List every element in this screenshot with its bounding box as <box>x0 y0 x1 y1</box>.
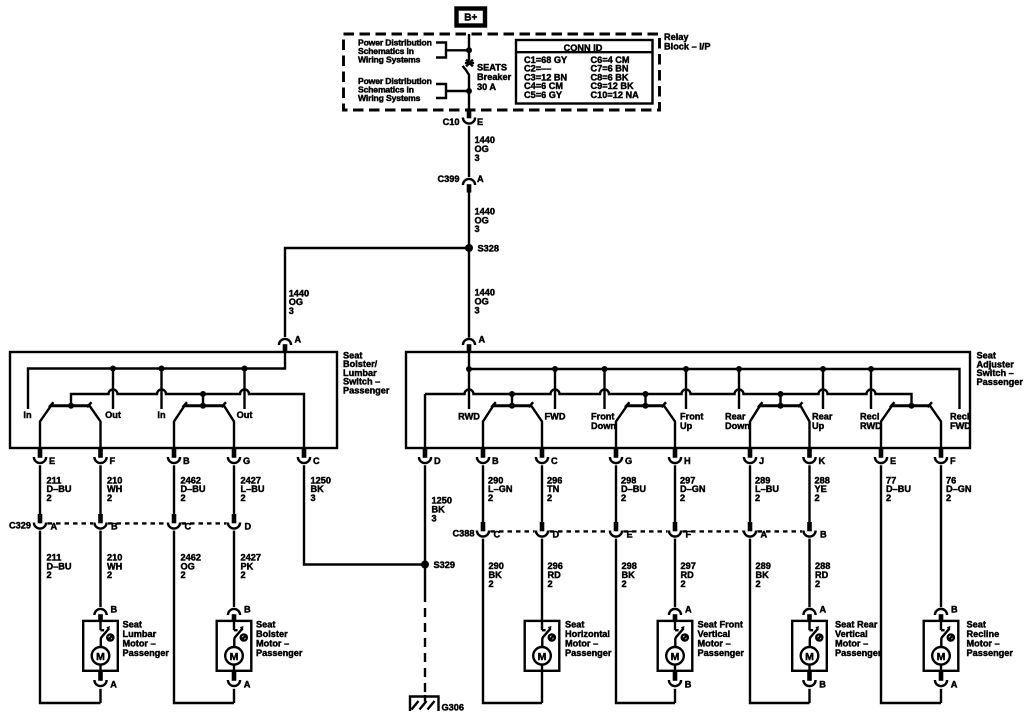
switch blade to pin B <box>174 406 185 448</box>
svg-text:M: M <box>937 651 946 663</box>
wire <box>233 465 235 514</box>
junction <box>68 403 74 409</box>
wire switch common (rear vertical) <box>779 394 781 406</box>
wire switch common (horizontal) <box>511 394 513 406</box>
junction <box>466 88 472 94</box>
connector pin B (lumbar motor) <box>98 614 103 621</box>
connector pin A (front vertical motor) <box>673 614 678 621</box>
svg-text:C: C <box>313 456 320 466</box>
connector C10 pin E <box>467 110 472 118</box>
wire feed bus in left switch <box>28 352 285 409</box>
connector pin A (adjuster switch feed) <box>467 344 472 352</box>
wire common bus with crossover hops (adjuster) <box>425 390 912 449</box>
svg-text:A: A <box>951 679 958 689</box>
connector pin E (adjuster switch) <box>879 448 884 458</box>
junction <box>509 403 515 409</box>
wire C388-B to rear vertical motor <box>808 539 810 607</box>
wire <box>808 465 810 522</box>
svg-text:Seat Front: Seat Front <box>698 620 743 630</box>
svg-text:3: 3 <box>475 305 480 315</box>
wire stub FWD <box>554 369 556 409</box>
svg-text:A: A <box>110 679 117 689</box>
switch blade to pin <box>664 406 675 448</box>
dashed connector line C329 <box>48 522 227 524</box>
svg-text:A: A <box>244 679 251 689</box>
svg-text:B+: B+ <box>464 12 477 23</box>
relay block I/P dashed enclosure <box>344 34 660 110</box>
connector pin B (adjuster switch) <box>481 448 486 458</box>
svg-text:D: D <box>245 522 252 532</box>
svg-text:F: F <box>950 456 956 466</box>
wire bracket to feed <box>446 90 469 92</box>
svg-text:Bolster: Bolster <box>256 629 288 639</box>
svg-text:2: 2 <box>488 493 493 503</box>
junction <box>110 366 116 372</box>
bracket lower reference <box>436 84 446 98</box>
junction <box>643 403 649 409</box>
wire C388-E return loop <box>616 539 675 703</box>
wire 1250 BK to S329 <box>304 465 422 564</box>
svg-text:A: A <box>477 174 484 184</box>
switch blade to pin <box>531 406 542 448</box>
wire horizontal motor to return <box>541 671 543 703</box>
svg-text:A: A <box>295 335 302 345</box>
junction <box>778 403 784 409</box>
switch contact bar (front vertical) <box>627 404 664 407</box>
svg-text:Seat: Seat <box>967 620 986 630</box>
connector C388 pin F <box>673 522 678 531</box>
junction <box>602 366 608 372</box>
connector pin F (adjuster switch) <box>939 448 944 458</box>
svg-text:C10: C10 <box>443 117 460 127</box>
wire <box>940 689 942 703</box>
junction <box>643 391 649 397</box>
connector pin A (bolster motor) <box>232 671 237 681</box>
connector C388 pin B <box>807 522 812 531</box>
svg-text:Front: Front <box>680 411 703 421</box>
svg-text:Rear: Rear <box>812 411 833 421</box>
svg-text:2: 2 <box>886 493 891 503</box>
wire C329-A return loop <box>40 531 101 703</box>
svg-text:Passenger: Passenger <box>967 648 1014 658</box>
connector pin B (recline motor) <box>939 614 944 621</box>
svg-text:B: B <box>820 530 827 540</box>
wire feed into adjuster switch <box>468 352 470 409</box>
svg-text:Seat: Seat <box>565 620 584 630</box>
svg-text:In: In <box>23 410 32 420</box>
junction <box>200 391 206 397</box>
switch contact bar (bolster) <box>185 404 225 407</box>
connector C329 pin B <box>98 514 103 523</box>
connector pin C (adjuster switch) <box>540 448 545 458</box>
svg-text:2: 2 <box>621 493 626 503</box>
svg-text:2: 2 <box>241 493 246 503</box>
connector C388 pin D <box>540 522 545 531</box>
motor M3: Seat Horizontal Motor - Passenger <box>525 621 560 671</box>
svg-text:G: G <box>243 456 250 466</box>
switch assembly box: Seat Adjuster Switch - Passenger <box>406 352 970 448</box>
wire C388-D to horizontal motor <box>541 539 543 621</box>
connector pin A (left switch feed) <box>283 344 288 352</box>
switch contact bar (horizontal) <box>493 404 531 407</box>
svg-text:Motor –: Motor – <box>835 639 868 649</box>
circuit breaker blade <box>463 66 469 75</box>
svg-text:3: 3 <box>475 153 480 163</box>
svg-text:2: 2 <box>756 579 761 589</box>
svg-text:Motor –: Motor – <box>123 639 156 649</box>
wire stub Front Down <box>603 369 605 409</box>
svg-text:E: E <box>890 456 896 466</box>
wire <box>173 465 175 514</box>
connector C329 pin C <box>172 514 177 523</box>
svg-text:S328: S328 <box>478 244 499 254</box>
svg-text:2: 2 <box>107 570 112 580</box>
svg-text:2: 2 <box>181 570 186 580</box>
svg-text:M: M <box>671 651 680 663</box>
svg-text:K: K <box>819 456 826 466</box>
junction <box>868 366 874 372</box>
svg-text:Wiring Systems: Wiring Systems <box>358 55 421 65</box>
svg-text:C388: C388 <box>453 529 475 539</box>
svg-text:Out: Out <box>237 410 253 420</box>
svg-text:Breaker: Breaker <box>477 72 512 82</box>
svg-text:2: 2 <box>680 493 685 503</box>
switch blade to pin <box>881 406 892 448</box>
svg-text:3: 3 <box>311 493 316 503</box>
svg-text:CONN ID: CONN ID <box>564 43 603 53</box>
switch blade to pin G <box>224 406 234 448</box>
connector C388 pin C <box>481 522 486 531</box>
switch blade to pin F <box>90 406 101 448</box>
svg-text:2: 2 <box>547 493 552 503</box>
svg-text:Recl: Recl <box>860 411 879 421</box>
switch blade to pin <box>616 406 627 448</box>
svg-text:2: 2 <box>815 493 820 503</box>
wire stub Recl RWD <box>870 369 872 409</box>
svg-text:C399: C399 <box>438 174 460 184</box>
junction <box>200 403 206 409</box>
wire <box>808 689 810 703</box>
svg-text:M: M <box>538 651 547 663</box>
svg-text:Passenger: Passenger <box>977 377 1024 387</box>
wire <box>749 465 751 522</box>
wire <box>99 689 101 703</box>
svg-text:Horizontal: Horizontal <box>565 629 610 639</box>
wire feed bus (adjuster) <box>469 369 960 409</box>
svg-text:Recl: Recl <box>950 411 969 421</box>
svg-text:G: G <box>625 456 632 466</box>
svg-text:Wiring Systems: Wiring Systems <box>358 93 421 103</box>
connector C388 pin A <box>748 522 753 531</box>
svg-text:Passenger: Passenger <box>565 648 612 658</box>
svg-text:Block – I/P: Block – I/P <box>664 41 710 51</box>
wire common bus with crossover hops to pin C <box>71 390 304 449</box>
dashed connector line C388 <box>491 530 803 532</box>
wire stub Front Up <box>685 369 687 409</box>
wire <box>482 465 484 522</box>
wire stub Out <box>243 369 245 410</box>
connector C329 pin D <box>232 514 237 523</box>
svg-text:Motor –: Motor – <box>256 639 289 649</box>
wire stub Out <box>112 369 114 410</box>
connector pin A (lumbar motor) <box>98 671 103 681</box>
circuit breaker SEATS Breaker 30 A contact star <box>465 60 474 67</box>
svg-text:B: B <box>819 679 826 689</box>
wire C329-D to bolster motor <box>233 531 235 607</box>
svg-text:M: M <box>805 651 814 663</box>
svg-text:2: 2 <box>548 579 553 589</box>
svg-text:S329: S329 <box>434 560 455 570</box>
bracket upper reference <box>436 43 446 58</box>
connector C329 pin A <box>38 514 43 523</box>
svg-text:G306: G306 <box>442 703 464 713</box>
svg-text:F: F <box>110 456 116 466</box>
connector pin F (left switch) <box>98 448 103 458</box>
wire C388-C return loop <box>483 539 542 703</box>
svg-text:C329: C329 <box>9 520 31 530</box>
svg-text:3: 3 <box>432 513 437 523</box>
svg-text:B: B <box>685 679 692 689</box>
wire S328 branch to left switch <box>285 248 469 337</box>
svg-text:Seat Rear: Seat Rear <box>835 620 878 630</box>
connector pin B (front vertical motor) <box>673 671 678 681</box>
switch blade to pin <box>750 406 760 448</box>
svg-text:Front: Front <box>591 411 614 421</box>
svg-text:In: In <box>157 410 166 420</box>
CONN ID table <box>516 40 653 104</box>
svg-text:Motor –: Motor – <box>565 639 598 649</box>
svg-text:2: 2 <box>815 579 820 589</box>
svg-text:Passenger: Passenger <box>256 648 303 658</box>
wire breaker to C10 <box>468 74 470 110</box>
wire pin D to S329 <box>424 465 426 564</box>
svg-text:Recline: Recline <box>967 629 1000 639</box>
switch assembly box: Seat Bolster/Lumbar Switch - Passenger <box>10 352 337 448</box>
svg-text:B: B <box>951 605 958 615</box>
wire <box>674 689 676 703</box>
switch blade to pin <box>930 406 941 448</box>
wire switch common (front vertical) <box>644 394 646 406</box>
wire C388-F to front vertical motor <box>674 539 676 607</box>
svg-text:Passenger: Passenger <box>698 648 745 658</box>
wire pin E to recline return <box>881 465 941 703</box>
wire <box>541 465 543 522</box>
wire <box>99 465 101 514</box>
connector pin B (bolster motor) <box>232 614 237 621</box>
wire S329 to G306 (unconnected path dashed) <box>424 568 426 602</box>
svg-text:2: 2 <box>47 570 52 580</box>
junction <box>778 391 784 397</box>
svg-text:2: 2 <box>622 579 627 589</box>
junction <box>509 391 515 397</box>
svg-text:Lumbar: Lumbar <box>123 629 157 639</box>
svg-text:B: B <box>183 456 190 466</box>
wire pin F to recline motor <box>940 465 942 607</box>
svg-text:Passenger: Passenger <box>123 648 170 658</box>
junction <box>552 366 558 372</box>
svg-text:C10=12 NA: C10=12 NA <box>591 90 640 100</box>
connector pin A (rear vertical motor) <box>807 614 812 621</box>
svg-text:SEATS: SEATS <box>477 62 507 72</box>
svg-text:RWD: RWD <box>458 412 480 422</box>
svg-text:3: 3 <box>289 306 294 316</box>
svg-text:A: A <box>479 335 486 345</box>
battery feed B+ <box>457 9 486 26</box>
wire <box>615 465 617 522</box>
svg-text:E: E <box>477 117 483 127</box>
wire C388-A return loop <box>750 539 810 703</box>
svg-text:FWD: FWD <box>950 421 971 431</box>
switch blade to pin <box>483 406 493 448</box>
wire C329-B to lumbar motor <box>99 531 101 607</box>
svg-text:A: A <box>685 605 692 615</box>
connector pin B (left switch) <box>172 448 177 458</box>
connector pin K (adjuster switch) <box>807 448 812 458</box>
connector pin H (adjuster switch) <box>673 448 678 458</box>
connector pin A (recline motor) <box>939 671 944 681</box>
motor M6: Seat Recline Motor - Passenger <box>924 621 959 671</box>
wire relay block top to breaker <box>468 34 470 61</box>
motor M2: Seat Bolster Motor - Passenger <box>217 621 252 671</box>
wire S328 to right switch <box>468 248 470 338</box>
junction <box>820 366 826 372</box>
switch contact bar (recline) <box>892 404 930 407</box>
connector pin C (left switch) <box>302 448 307 458</box>
svg-text:3: 3 <box>475 224 480 234</box>
switch blade to pin <box>801 406 810 448</box>
motor M4: Seat Front Vertical Motor - Passenger <box>658 621 693 671</box>
wire <box>233 689 235 703</box>
connector C388 pin E <box>614 522 619 531</box>
svg-text:A: A <box>820 605 827 615</box>
wire <box>468 126 470 177</box>
svg-text:Vertical: Vertical <box>698 629 731 639</box>
svg-text:Passenger: Passenger <box>343 386 390 396</box>
svg-text:Up: Up <box>812 421 825 431</box>
svg-text:M: M <box>96 651 105 663</box>
svg-text:B: B <box>492 456 499 466</box>
svg-text:Relay: Relay <box>664 32 689 42</box>
svg-text:Up: Up <box>680 421 693 431</box>
switch contact bar (rear vertical) <box>760 404 801 407</box>
connector pin G (adjuster switch) <box>614 448 619 458</box>
svg-text:Seat: Seat <box>256 620 275 630</box>
svg-text:Rear: Rear <box>725 411 746 421</box>
svg-text:D: D <box>434 456 441 466</box>
wire stub Rear Down <box>738 369 740 409</box>
svg-text:2: 2 <box>241 570 246 580</box>
svg-text:2: 2 <box>946 493 951 503</box>
svg-text:2: 2 <box>107 493 112 503</box>
connector pin D (adjuster switch) <box>423 448 428 458</box>
svg-text:H: H <box>684 456 691 466</box>
svg-text:J: J <box>759 456 764 466</box>
junction <box>466 47 472 53</box>
switch blade to pin E <box>40 406 51 448</box>
svg-text:30 A: 30 A <box>477 82 496 92</box>
junction <box>159 366 165 372</box>
connector C399 pin A <box>467 184 472 192</box>
svg-text:Down: Down <box>591 421 616 431</box>
svg-text:Motor –: Motor – <box>967 639 1000 649</box>
svg-text:Motor –: Motor – <box>698 639 731 649</box>
svg-text:B: B <box>244 605 251 615</box>
svg-text:2: 2 <box>489 579 494 589</box>
motor M1: Seat Lumbar Motor - Passenger <box>83 621 118 671</box>
splice S328 <box>465 244 473 252</box>
junction <box>466 366 472 372</box>
switch contact bar (lumbar) <box>51 404 90 407</box>
ground G306 <box>410 697 439 712</box>
svg-text:2: 2 <box>755 493 760 503</box>
connector pin G (left switch) <box>232 448 237 458</box>
svg-text:Out: Out <box>105 410 121 420</box>
wire switch common (bolster) <box>202 394 204 406</box>
connector pin B (rear vertical motor) <box>807 671 812 681</box>
splice S329 <box>421 561 429 569</box>
svg-text:Passenger: Passenger <box>835 648 882 658</box>
wire C329-C return loop <box>174 531 234 703</box>
wire bracket to feed <box>446 49 469 51</box>
svg-text:RWD: RWD <box>860 421 882 431</box>
svg-text:Down: Down <box>725 421 750 431</box>
junction <box>736 366 742 372</box>
svg-text:C5=6 GY: C5=6 GY <box>524 90 562 100</box>
svg-text:2: 2 <box>181 493 186 503</box>
junction <box>683 366 689 372</box>
svg-text:Seat: Seat <box>123 620 142 630</box>
svg-text:FWD: FWD <box>545 412 566 422</box>
motor M5: Seat Rear Vertical Motor - Passenger <box>792 621 827 671</box>
connector pin J (adjuster switch) <box>748 448 753 458</box>
connector pin E (left switch) <box>38 448 43 458</box>
svg-text:E: E <box>49 456 55 466</box>
svg-text:Vertical: Vertical <box>835 629 868 639</box>
wire stub Rear Up <box>822 369 824 409</box>
junction <box>242 366 248 372</box>
svg-text:M: M <box>230 651 239 663</box>
svg-text:2: 2 <box>47 493 52 503</box>
wire <box>468 193 470 249</box>
svg-text:B: B <box>111 605 118 615</box>
svg-text:2: 2 <box>681 579 686 589</box>
wire <box>39 465 41 514</box>
wire stub In <box>160 369 162 410</box>
svg-text:C: C <box>551 456 558 466</box>
wire <box>674 465 676 522</box>
junction <box>909 403 915 409</box>
